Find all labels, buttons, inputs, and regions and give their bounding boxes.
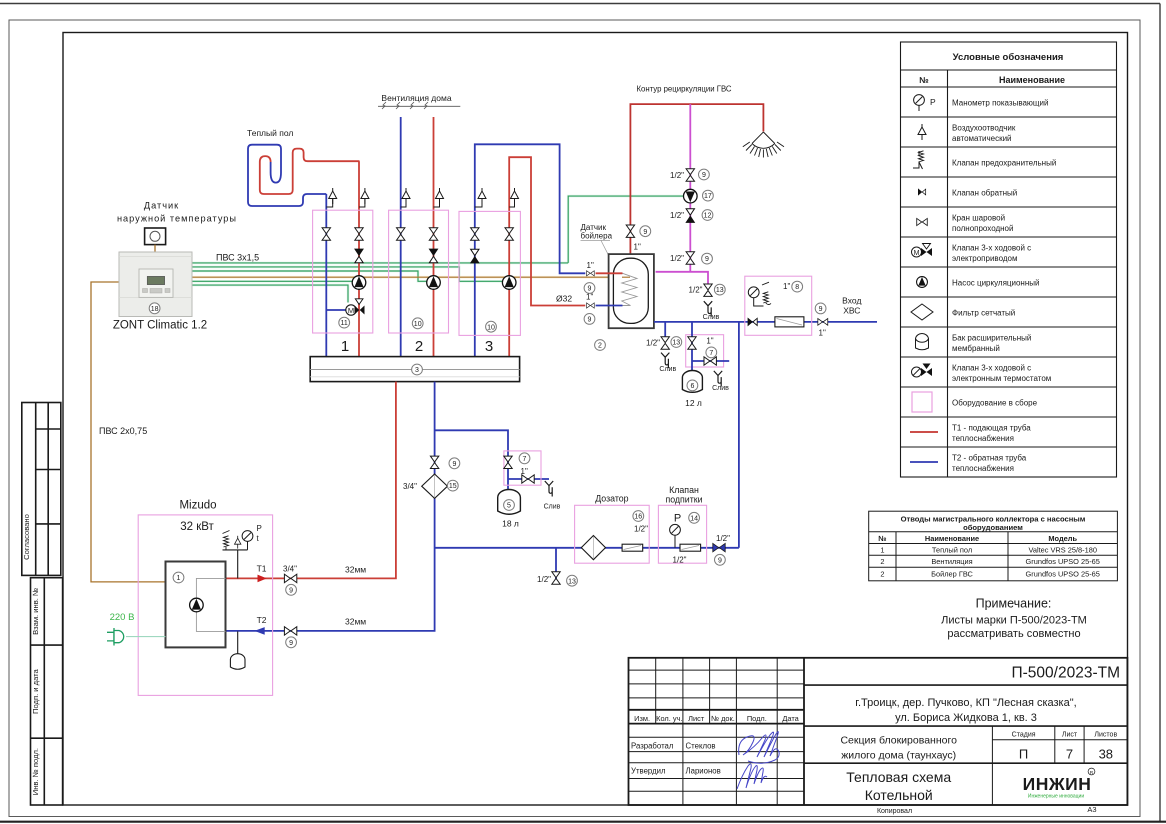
- svg-text:Взам. инв. №: Взам. инв. №: [31, 588, 40, 635]
- podpitka gauge: [670, 524, 681, 547]
- svg-text:Р: Р: [674, 513, 681, 525]
- number 9 boiler top left: [584, 283, 595, 294]
- group8 gauge: [748, 287, 763, 306]
- pipe recirculation magenta: [689, 104, 691, 272]
- number 9 recirc top: [699, 169, 710, 180]
- svg-text:1/2": 1/2": [670, 171, 684, 180]
- svg-text:Лист: Лист: [1062, 732, 1078, 739]
- pipe DHW out magenta: [656, 272, 708, 285]
- svg-text:Ларионов: Ларионов: [686, 767, 721, 776]
- number 9 hvs: [815, 303, 826, 314]
- group8 safety valve: [762, 282, 771, 304]
- window border top: [0, 3, 1160, 5]
- svg-text:Котельной: Котельной: [865, 787, 933, 803]
- svg-text:ХВС: ХВС: [843, 306, 860, 316]
- Mizudo pump: [190, 598, 204, 612]
- svg-text:электроприводом: электроприводом: [952, 254, 1017, 263]
- air vent stub riser1 red: [359, 199, 365, 207]
- filter dozator: [581, 536, 605, 560]
- number 9 makeup right: [715, 554, 726, 565]
- svg-text:R: R: [1090, 770, 1094, 776]
- svg-text:наружной температуры: наружной температуры: [117, 214, 237, 224]
- ZONT LCD: [147, 276, 164, 284]
- T1 arrow: [258, 575, 267, 583]
- ZONT seam lines: [119, 257, 192, 298]
- legend sym ball valve: [917, 218, 928, 225]
- legend sym T2 line: [910, 461, 938, 463]
- svg-text:Клапан: Клапан: [669, 485, 699, 495]
- number 3 collector: [412, 364, 423, 375]
- safety group gauge: [242, 531, 253, 550]
- signature 2: [737, 764, 767, 789]
- pipe HVS main: [654, 321, 877, 323]
- pump 17 recirculation: [684, 189, 698, 203]
- svg-text:1: 1: [880, 545, 884, 554]
- number 11: [339, 317, 350, 328]
- pipe drop drain hvs1: [664, 322, 666, 337]
- check valve riser3 blue: [471, 249, 479, 263]
- svg-text:18 л: 18 л: [502, 519, 519, 529]
- number 5: [504, 500, 515, 511]
- svg-text:Примечание:: Примечание:: [976, 597, 1052, 611]
- ball valve drain tank5: [522, 475, 534, 483]
- pipe makeup line: [435, 547, 739, 549]
- svg-text:Разработал: Разработал: [631, 742, 674, 751]
- legend sym pump: [917, 277, 928, 288]
- ZONT buttons: [143, 289, 171, 294]
- number 13 hvs drain1: [671, 337, 682, 348]
- svg-text:Инженерные инновации: Инженерные инновации: [1028, 794, 1084, 800]
- svg-text:Модель: Модель: [1048, 534, 1077, 543]
- svg-text:ИНЖИН: ИНЖИН: [1023, 774, 1092, 794]
- svg-text:Слив: Слив: [659, 366, 676, 373]
- air vent stub riser3 red: [509, 199, 514, 207]
- number 17: [703, 190, 714, 201]
- svg-text:Согласовано: Согласовано: [22, 514, 31, 560]
- svg-text:15: 15: [449, 483, 457, 490]
- pipe riser 1 red: [358, 161, 360, 356]
- break marks: [382, 102, 428, 109]
- legend sym expansion tank: [916, 334, 929, 350]
- svg-text:бойлера: бойлера: [581, 232, 613, 241]
- boiler red stub inside: [596, 272, 623, 274]
- svg-text:Листов: Листов: [1094, 732, 1117, 739]
- svg-text:Бойлер ГВС: Бойлер ГВС: [931, 570, 973, 579]
- pink box group 7b: [504, 451, 541, 485]
- svg-text:9: 9: [452, 461, 456, 468]
- expansion tank 6: [682, 371, 702, 393]
- sensor circle: [150, 231, 160, 241]
- legend sym check valve: [918, 189, 925, 195]
- pipe riser 2 red: [433, 117, 435, 357]
- svg-text:7: 7: [523, 456, 527, 463]
- svg-text:3/4": 3/4": [403, 482, 417, 491]
- number 9 T1: [286, 584, 297, 595]
- svg-text:Листы марки П-500/2023-ТМ: Листы марки П-500/2023-ТМ: [941, 615, 1087, 627]
- boiler blue stub inside: [596, 305, 623, 307]
- ball valve hvs drain1: [661, 337, 669, 349]
- ball valve recirc bottom: [686, 252, 694, 264]
- boiler tank body: [609, 254, 654, 328]
- Mizudo boiler body: [166, 562, 226, 648]
- svg-text:Grundfos UPSO 25-65: Grundfos UPSO 25-65: [1026, 570, 1100, 579]
- pink box group 7: [686, 335, 724, 367]
- plug 220V: [107, 628, 124, 646]
- check valve riser1 red: [355, 249, 363, 263]
- svg-text:Слив: Слив: [712, 385, 729, 392]
- svg-text:оборудованием: оборудованием: [963, 523, 1023, 532]
- svg-text:6: 6: [690, 383, 694, 390]
- svg-text:2: 2: [880, 570, 884, 579]
- wire PVS green 3 to pump 2: [192, 271, 427, 281]
- filter strainer makeup: [422, 474, 448, 498]
- svg-text:Кран шаровой: Кран шаровой: [952, 214, 1005, 223]
- floor heating coil blue: [248, 145, 326, 206]
- wire ZONT to Mizudo brown: [91, 282, 166, 582]
- svg-text:9: 9: [819, 306, 823, 313]
- ball valve riser1 red: [355, 228, 363, 240]
- svg-text:9: 9: [289, 587, 293, 594]
- ball valve makeup drop: [430, 456, 438, 468]
- svg-text:Стадия: Стадия: [1012, 732, 1036, 739]
- svg-text:Клапан 3-х ходовой с: Клапан 3-х ходовой с: [952, 364, 1031, 373]
- svg-text:Контур рециркуляции ГВС: Контур рециркуляции ГВС: [636, 85, 731, 94]
- magenta drain valve 13: [704, 284, 712, 296]
- drain hvs1: [661, 353, 669, 369]
- svg-text:1/2": 1/2": [537, 575, 551, 584]
- svg-text:№: №: [878, 534, 886, 543]
- pink box dozator: [575, 505, 650, 563]
- svg-text:7: 7: [709, 350, 713, 357]
- svg-text:Тепловая схема: Тепловая схема: [846, 769, 951, 785]
- air vent riser3 blue: [478, 188, 486, 204]
- side stamp lower block: [31, 578, 63, 805]
- svg-text:9: 9: [643, 229, 647, 236]
- pink box podpitka: [658, 505, 706, 563]
- svg-text:1": 1": [586, 293, 593, 302]
- svg-text:P: P: [257, 524, 262, 533]
- svg-text:16: 16: [634, 514, 642, 521]
- svg-text:Теплый пол: Теплый пол: [932, 545, 972, 554]
- svg-text:13: 13: [568, 578, 576, 585]
- svg-text:Копировал: Копировал: [877, 808, 912, 815]
- number 7 group7: [706, 347, 717, 358]
- svg-text:1": 1": [819, 329, 826, 338]
- svg-text:Манометр показывающий: Манометр показывающий: [952, 99, 1048, 108]
- svg-text:18: 18: [151, 306, 159, 313]
- Mizudo inner circuit: [196, 578, 225, 631]
- svg-text:9: 9: [289, 640, 293, 647]
- svg-text:Вентиляция: Вентиляция: [931, 557, 972, 566]
- wire plug to boiler: [126, 636, 166, 638]
- svg-text:Наименование: Наименование: [925, 534, 979, 543]
- svg-text:Т1 - подающая труба: Т1 - подающая труба: [952, 424, 1031, 433]
- number 6: [687, 380, 698, 391]
- svg-text:32мм: 32мм: [345, 565, 366, 575]
- expansion tank mizudo: [230, 654, 245, 670]
- collector outlets table frame: [869, 511, 1118, 581]
- shower symbol: [743, 132, 784, 158]
- svg-text:220 В: 220 В: [110, 612, 135, 623]
- air vent stub riser2 blue: [401, 199, 406, 207]
- svg-text:ул. Бориса Жидкова 1, кв. 3: ул. Бориса Жидкова 1, кв. 3: [895, 712, 1037, 724]
- svg-text:г.Троицк, дер. Пучково, КП "Ле: г.Троицк, дер. Пучково, КП "Лесная сказк…: [855, 697, 1076, 709]
- svg-text:Дата: Дата: [782, 714, 799, 723]
- svg-text:Воздухоотводчик: Воздухоотводчик: [952, 124, 1016, 133]
- air vent riser1 blue: [329, 188, 337, 204]
- svg-text:ZONT Climatic 1.2: ZONT Climatic 1.2: [113, 320, 207, 332]
- pump 3: [502, 276, 516, 290]
- pink box group 2: [389, 210, 449, 333]
- svg-text:1: 1: [341, 338, 349, 355]
- title block frame: [629, 658, 1128, 805]
- ball valve tank6: [688, 337, 696, 349]
- svg-text:Утвердил: Утвердил: [631, 767, 666, 776]
- svg-text:13: 13: [716, 287, 724, 294]
- pump 2: [427, 276, 441, 290]
- svg-text:7: 7: [1066, 747, 1073, 762]
- pipe makeup riser to HVS: [738, 322, 740, 548]
- svg-text:Условные обозначения: Условные обозначения: [953, 52, 1064, 63]
- ball valve riser3 blue: [471, 228, 479, 240]
- three way valve 11 pipe stub: [326, 309, 346, 311]
- svg-text:2: 2: [598, 343, 602, 350]
- svg-text:14: 14: [690, 515, 698, 522]
- ball valve riser2 red: [429, 228, 437, 240]
- svg-text:1/2": 1/2": [673, 556, 687, 565]
- svg-text:1/2": 1/2": [689, 286, 703, 295]
- svg-text:M: M: [914, 250, 920, 257]
- svg-text:Т2 - обратная труба: Т2 - обратная труба: [952, 454, 1027, 463]
- legend sym air vent: [918, 124, 926, 140]
- svg-text:ПВС 2х0,75: ПВС 2х0,75: [99, 426, 147, 436]
- svg-text:Подл.: Подл.: [747, 714, 767, 723]
- svg-text:2: 2: [415, 338, 423, 355]
- svg-text:1/2": 1/2": [634, 525, 648, 534]
- svg-text:электронным термостатом: электронным термостатом: [952, 374, 1051, 383]
- pipe riser 2 blue: [400, 117, 402, 357]
- sensor wire stub: [154, 245, 156, 252]
- legend sym assembled equipment: [912, 392, 932, 412]
- pipe recirculation red top: [630, 104, 763, 254]
- pipe branch group7: [692, 360, 729, 362]
- group8 pressure reducer: [775, 317, 804, 327]
- svg-text:Насос циркуляционный: Насос циркуляционный: [952, 279, 1039, 288]
- pipe drain branch tank5: [508, 478, 549, 480]
- number 9 boiler bottom left: [584, 314, 595, 325]
- pipe collector drop blue T2: [226, 382, 435, 631]
- svg-text:9: 9: [705, 256, 709, 263]
- number 10 group2: [412, 318, 423, 329]
- check valve 12: [686, 209, 694, 223]
- wire halos: [192, 196, 684, 302]
- makeup valve cartridge: [680, 544, 701, 551]
- pink box group 1: [313, 210, 373, 333]
- dosing cartridge: [622, 544, 643, 551]
- svg-text:1": 1": [706, 337, 713, 346]
- boiler brown sensor tip: [622, 276, 630, 278]
- svg-text:Секция блокированного: Секция блокированного: [840, 735, 957, 747]
- window border right: [1159, 4, 1161, 823]
- svg-text:32мм: 32мм: [345, 617, 366, 627]
- expansion tank stub: [237, 631, 239, 654]
- logo registered mark: [1088, 768, 1095, 776]
- ZONT panel: [139, 269, 173, 297]
- number 13 makeup: [567, 575, 578, 586]
- svg-text:1/2": 1/2": [670, 211, 684, 220]
- svg-text:1": 1": [587, 261, 594, 270]
- number 12: [702, 210, 713, 221]
- wire green to valve 11: [192, 285, 348, 302]
- svg-text:12: 12: [704, 213, 712, 220]
- svg-text:1/2": 1/2": [716, 534, 730, 543]
- svg-text:1/2": 1/2": [646, 339, 660, 348]
- svg-text:Наименование: Наименование: [999, 75, 1065, 85]
- svg-text:№: №: [919, 75, 929, 85]
- legend sym manometer: [914, 95, 936, 111]
- Mizudo pink box: [138, 515, 272, 696]
- svg-text:Valtec VRS 25/8-180: Valtec VRS 25/8-180: [1028, 545, 1096, 554]
- svg-text:Ø32: Ø32: [556, 294, 572, 304]
- pipe collector drop red to T1: [226, 382, 396, 579]
- ventilation break line: [378, 105, 460, 107]
- ball valve hvs inlet: [818, 319, 828, 326]
- pipe riser 3 red to boiler bottom: [509, 157, 585, 356]
- svg-text:Стеклов: Стеклов: [686, 742, 716, 751]
- svg-text:Дозатор: Дозатор: [595, 494, 628, 504]
- pink box group 3: [459, 211, 520, 335]
- svg-text:Теплый пол: Теплый пол: [247, 128, 293, 138]
- pipe drain stub 13: [555, 548, 557, 585]
- svg-text:ПВС 3х1,5: ПВС 3х1,5: [216, 253, 259, 263]
- side stamp Soglasovano block: [22, 403, 61, 576]
- svg-text:Лист: Лист: [688, 714, 705, 723]
- wire PVS green 1 to pump 17: [192, 196, 684, 263]
- svg-text:3: 3: [485, 338, 493, 355]
- pump 1: [352, 276, 366, 290]
- three way valve 11: [346, 299, 365, 315]
- pipe branch to tank5 group: [435, 430, 508, 489]
- boiler coil: [622, 273, 637, 305]
- safety group pipe: [223, 550, 248, 579]
- svg-text:12 л: 12 л: [685, 398, 702, 408]
- pipe riser 1 blue: [325, 194, 327, 357]
- air vent stub riser1 blue: [326, 199, 332, 207]
- svg-text:Подп. и дата: Подп. и дата: [31, 668, 40, 714]
- window border bottom: [0, 821, 1166, 823]
- svg-text:теплоснабжения: теплоснабжения: [952, 434, 1014, 443]
- number 9 boiler inlet: [640, 226, 651, 237]
- svg-text:11: 11: [341, 320, 348, 327]
- svg-text:Бак расширительный: Бак расширительный: [952, 334, 1031, 343]
- svg-text:3: 3: [415, 367, 419, 374]
- svg-text:А3: А3: [1087, 805, 1096, 814]
- svg-text:9: 9: [702, 172, 706, 179]
- wire green to pump 1: [192, 280, 352, 282]
- svg-text:№ док.: № док.: [711, 714, 735, 723]
- pipe drop tank6: [691, 322, 693, 370]
- ball valve riser1 blue: [322, 228, 330, 240]
- wire PVS green 2 to pump 3: [192, 267, 502, 281]
- ball valve riser2 blue: [397, 228, 405, 240]
- number 15: [447, 480, 458, 491]
- svg-text:теплоснабжения: теплоснабжения: [952, 464, 1014, 473]
- collector body: [310, 357, 519, 382]
- svg-text:Вход: Вход: [842, 296, 861, 306]
- svg-text:Клапан обратный: Клапан обратный: [952, 189, 1017, 198]
- air vent riser3 red: [511, 188, 519, 204]
- svg-text:Т2: Т2: [257, 615, 267, 625]
- number 9 T2: [286, 637, 297, 648]
- boiler sensor underline: [581, 239, 611, 241]
- air vent riser2 red: [436, 188, 444, 204]
- ball valve makeup right: [713, 543, 725, 551]
- svg-text:Инв. № подл.: Инв. № подл.: [31, 748, 40, 795]
- pink box group 8: [745, 276, 812, 335]
- svg-text:5: 5: [507, 503, 511, 510]
- safety valve spring: [223, 531, 230, 550]
- svg-text:Grundfos UPSO 25-65: Grundfos UPSO 25-65: [1026, 557, 1100, 566]
- number 1 Mizudo: [173, 572, 184, 583]
- ball valve boiler top left: [587, 271, 595, 276]
- svg-text:Слив: Слив: [703, 314, 720, 321]
- svg-text:П-500/2023-ТМ: П-500/2023-ТМ: [1012, 665, 1121, 682]
- svg-text:10: 10: [487, 324, 495, 331]
- svg-text:8: 8: [795, 284, 799, 291]
- T2 arrow: [254, 627, 264, 635]
- svg-text:подпитки: подпитки: [665, 495, 702, 505]
- svg-text:13: 13: [672, 340, 680, 347]
- svg-text:1/2": 1/2": [670, 254, 684, 263]
- svg-text:9: 9: [718, 557, 722, 564]
- svg-text:жилого дома (таунхаус): жилого дома (таунхаус): [841, 750, 956, 762]
- ball valve riser3 red: [505, 228, 513, 240]
- signature 1: [739, 732, 780, 764]
- ball valve T1: [284, 574, 296, 582]
- svg-text:Оборудование в сборе: Оборудование в сборе: [952, 399, 1038, 408]
- drain magenta: [704, 301, 712, 317]
- svg-text:автоматический: автоматический: [952, 134, 1012, 143]
- expansion tank 5: [498, 490, 521, 515]
- svg-text:Изм.: Изм.: [634, 714, 650, 723]
- svg-text:10: 10: [414, 321, 422, 328]
- legend sym 3way thermo valve: [912, 364, 933, 378]
- check valve riser2 red: [429, 249, 437, 263]
- pipe riser 3 blue to boiler top: [475, 144, 586, 356]
- svg-text:Датчик: Датчик: [144, 201, 179, 211]
- ball valve drain 13 makeup: [552, 572, 560, 584]
- svg-text:M: M: [348, 306, 354, 315]
- svg-text:Р: Р: [930, 97, 936, 107]
- boiler sensor leader: [601, 241, 627, 288]
- number 2 boiler: [595, 340, 606, 351]
- sensor box outdoor: [145, 228, 166, 245]
- svg-text:мембранный: мембранный: [952, 344, 1000, 353]
- safety group air vent: [235, 536, 241, 549]
- svg-text:Фильтр сетчатый: Фильтр сетчатый: [952, 309, 1015, 318]
- ball valve group7 horizontal: [704, 357, 716, 365]
- number 8: [792, 281, 803, 292]
- number 16: [633, 511, 644, 522]
- svg-text:полнопроходной: полнопроходной: [952, 224, 1013, 233]
- svg-text:Слив: Слив: [544, 504, 561, 511]
- legend sym filter: [911, 304, 933, 320]
- svg-text:38: 38: [1099, 747, 1113, 762]
- air vent stub riser2 red: [434, 199, 440, 207]
- collector inner line: [310, 369, 519, 371]
- svg-text:Клапан 3-х ходовой с: Клапан 3-х ходовой с: [952, 244, 1031, 253]
- legend sym 3way motor valve: [912, 244, 933, 258]
